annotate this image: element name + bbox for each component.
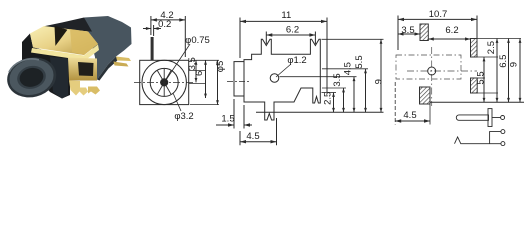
svg-text:5.5: 5.5 [354,55,365,68]
svg-text:6.2: 6.2 [445,25,458,36]
svg-text:6: 6 [194,71,205,76]
svg-text:4.5: 4.5 [403,110,416,121]
svg-text:9: 9 [374,79,385,84]
svg-text:3.5: 3.5 [332,73,343,86]
svg-text:3.5: 3.5 [401,25,414,36]
svg-text:4.5: 4.5 [343,62,354,75]
svg-text:4.5: 4.5 [246,131,259,142]
svg-text:6.5: 6.5 [498,55,509,68]
svg-text:φ3.2: φ3.2 [174,111,193,122]
svg-text:φ0.75: φ0.75 [185,35,210,46]
svg-text:6.2: 6.2 [286,24,299,35]
svg-text:0.2: 0.2 [158,19,171,30]
svg-text:10.7: 10.7 [429,9,448,20]
svg-text:1.5: 1.5 [221,114,234,125]
svg-text:5.5: 5.5 [476,71,487,84]
svg-text:φ5: φ5 [215,61,226,72]
svg-text:11: 11 [281,10,291,21]
svg-text:9: 9 [509,62,520,67]
svg-text:2.5: 2.5 [323,92,334,105]
svg-text:φ1.2: φ1.2 [287,55,306,66]
svg-text:3.5: 3.5 [187,57,198,70]
svg-text:2.5: 2.5 [486,41,497,54]
